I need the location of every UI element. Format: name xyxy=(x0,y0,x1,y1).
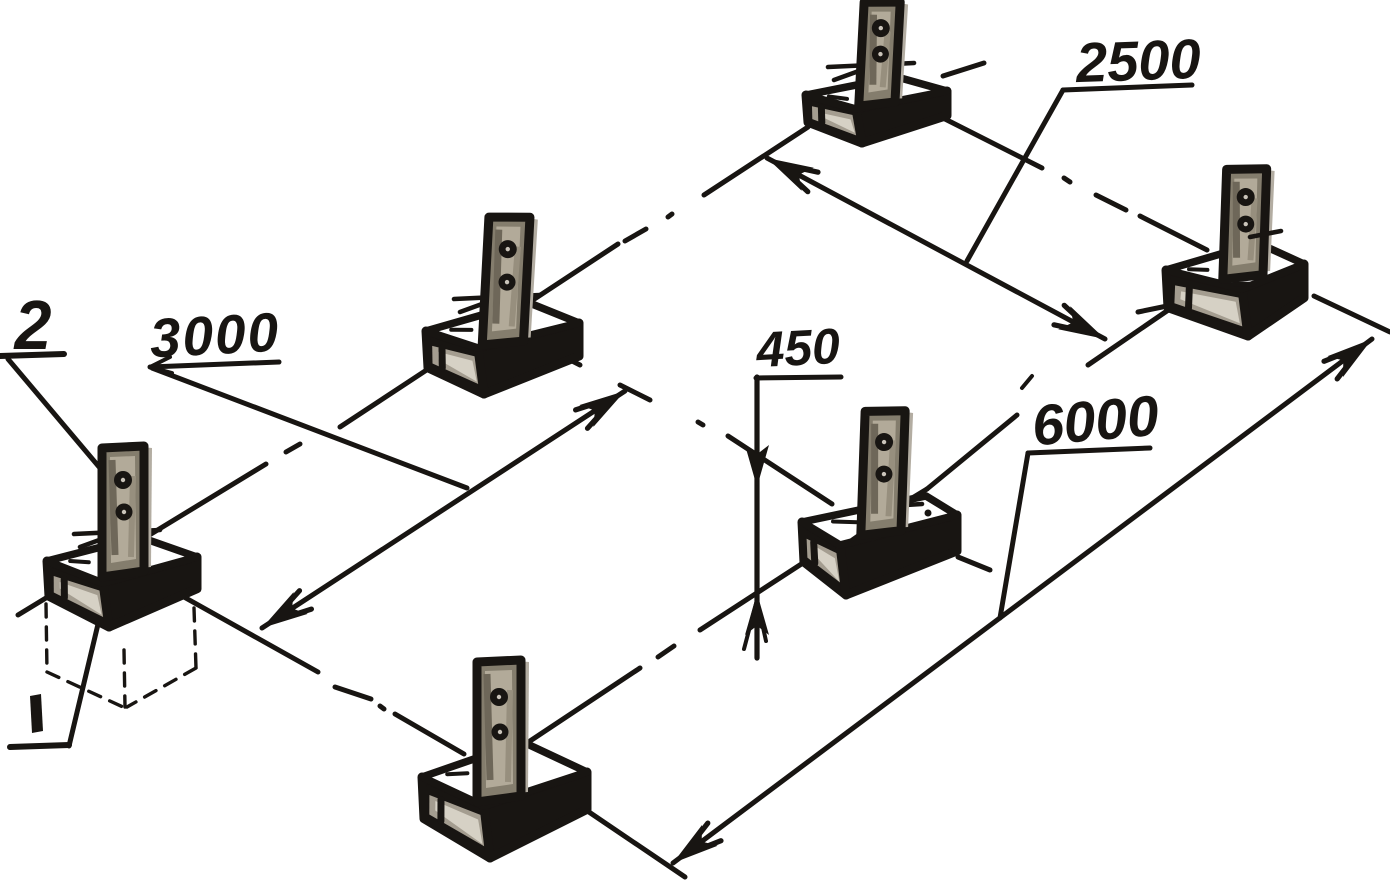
leader line of 2500 xyxy=(1063,85,1192,90)
row-1 centre line (through blocks 4,3,1) xyxy=(18,464,266,615)
svg-text:6000: 6000 xyxy=(1029,384,1161,459)
svg-text:2500: 2500 xyxy=(1074,27,1202,94)
svg-text:450: 450 xyxy=(754,318,841,378)
anchor bracket plate with two bolt holes xyxy=(859,0,909,108)
leader bracket of 450 xyxy=(756,377,841,378)
leader line of 3000 xyxy=(150,362,279,367)
svg-text:2: 2 xyxy=(13,286,52,364)
foundation block 2 (right) xyxy=(1166,165,1304,336)
foundation block 1 (top) xyxy=(806,0,947,143)
ink speck on top of block 5 xyxy=(925,510,932,517)
accent stroke above 6000 xyxy=(1022,376,1032,388)
foundation block 3 (upper middle) xyxy=(426,213,579,394)
dimension line 2500 with arrowheads xyxy=(767,158,1105,339)
foundation block 6 (bottom) xyxy=(422,658,587,858)
hollow channel base of block xyxy=(802,522,846,595)
leader line of 6000 xyxy=(1028,448,1150,453)
hidden underground outline of block 4 (dashed) xyxy=(46,604,47,672)
part label 1 (hand-drawn bar) xyxy=(30,694,43,733)
hollow channel base of block xyxy=(426,331,484,394)
svg-text:3000: 3000 xyxy=(148,301,281,370)
dimension line 3000 with arrowheads xyxy=(262,391,625,628)
column centre line through blocks 1-2 (right) xyxy=(943,118,1042,168)
dimension line 6000 with arrowheads xyxy=(673,339,1372,863)
row-2 centre line (through blocks 6,5,2) xyxy=(521,668,640,747)
anchor bracket plate with two bolt holes xyxy=(861,407,913,537)
anchor bracket plate with two bolt holes xyxy=(482,213,538,347)
hollow channel base of block xyxy=(422,777,490,858)
anchor bracket plate with two bolt holes xyxy=(102,444,152,577)
leader line of label 1 xyxy=(10,745,69,747)
dimension 450 vertical line with arrowheads xyxy=(754,377,759,658)
anchor bracket plate with two bolt holes xyxy=(1223,165,1275,281)
column centre line through blocks 4-6 (left) xyxy=(150,578,318,672)
anchor bracket plate with two bolt holes xyxy=(477,658,529,802)
column centre line through blocks 3-5 (middle) xyxy=(535,342,580,365)
leader line of label 2 xyxy=(0,354,64,356)
hollow channel base of block xyxy=(806,95,862,143)
hollow channel base of block xyxy=(47,561,109,627)
foundation block 4 (left) xyxy=(47,444,197,627)
hollow channel base of block xyxy=(1166,270,1248,336)
foundation block 5 (centre) xyxy=(802,407,957,595)
